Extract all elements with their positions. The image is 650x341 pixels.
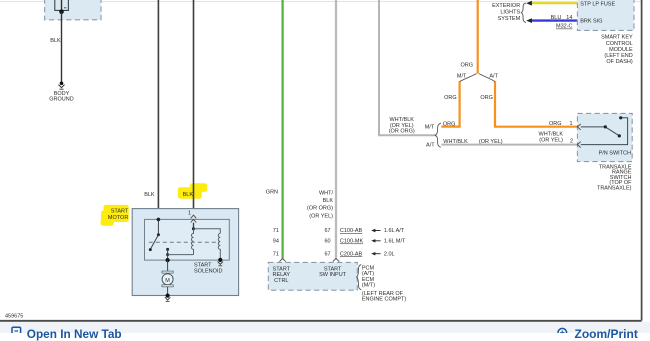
arrowhead yellow wire [526, 1, 532, 6]
svg-text:60: 60 [324, 239, 330, 245]
svg-text:67: 67 [324, 228, 330, 234]
brace wire split M/T A/T [435, 123, 441, 147]
wire BLK to solenoid terminal 1 [193, 0, 195, 219]
P/N switch internal wiring [581, 118, 628, 145]
jumper wire to hold-in coil [194, 229, 221, 234]
switch pivot dot [157, 233, 160, 236]
svg-text:START: START [111, 209, 129, 215]
motor M brush bar bottom [162, 285, 173, 287]
P/N switch blade [605, 127, 619, 136]
start motor assembly box [132, 209, 238, 296]
svg-text:BRK SIG: BRK SIG [580, 18, 602, 24]
link Zoom/Print [575, 327, 638, 341]
hold-in coil ground dot [218, 258, 222, 262]
svg-text:(OR YEL): (OR YEL) [479, 139, 503, 145]
svg-text:ORG: ORG [549, 121, 562, 127]
svg-text:71: 71 [273, 228, 279, 234]
svg-text:SOLENOID: SOLENOID [194, 268, 222, 274]
yellow highlight over BLK label [178, 183, 207, 198]
wire BLK battery cable to start motor [157, 0, 159, 219]
connector chevron at case entry [191, 215, 197, 218]
motor ground junction dot [166, 294, 170, 298]
svg-text:CONTROL: CONTROL [606, 41, 633, 47]
wire from chevron to coil junction [193, 223, 195, 229]
svg-text:SMART KEY: SMART KEY [601, 35, 633, 41]
arrow 1.6L A/T [371, 228, 405, 234]
wire junction to motor [167, 260, 169, 271]
svg-text:SYSTEM: SYSTEM [498, 16, 521, 22]
connector chevron at solenoid entry [191, 219, 197, 222]
junction dot [59, 9, 64, 14]
terminal junction dot on solenoid box [157, 218, 161, 222]
svg-text:OF DASH): OF DASH) [606, 59, 632, 65]
wire node to motor [167, 255, 169, 261]
open contact dot [149, 248, 152, 251]
label START MOTOR [108, 209, 129, 221]
wire ORG M/T branch [441, 81, 459, 126]
wire from terminal to switch pivot [157, 219, 159, 234]
svg-text:94: 94 [273, 239, 279, 245]
label PCM/ECM location [362, 266, 406, 303]
svg-text:71: 71 [273, 251, 279, 257]
smart key control module box (dashed, cut off at top) [577, 0, 634, 30]
wire ORG main feed [477, 0, 479, 74]
svg-text:ORG: ORG [443, 121, 456, 127]
arrowhead blue wire [526, 18, 532, 23]
svg-text:1.6L A/T: 1.6L A/T [384, 228, 405, 234]
svg-text:TRANSAXLE): TRANSAXLE) [597, 185, 632, 191]
svg-text:(M/T): (M/T) [362, 282, 375, 288]
wire ORG A/T branch to P/N switch pin 1 [495, 81, 577, 127]
svg-text:2: 2 [570, 139, 573, 145]
label EXTERIOR LIGHTS SYSTEM [492, 3, 521, 22]
pull-in coil winding [192, 229, 194, 255]
svg-text:67: 67 [324, 251, 330, 257]
svg-text:ORG: ORG [480, 95, 493, 101]
ground terminal dot [60, 82, 64, 86]
svg-text:GRN: GRN [266, 190, 278, 196]
label TRANSAXLE RANGE SWITCH location [597, 164, 632, 191]
svg-text:ORG: ORG [444, 95, 457, 101]
svg-text:1: 1 [569, 121, 572, 127]
svg-text:2.0L: 2.0L [384, 251, 395, 257]
svg-text:SW INPUT: SW INPUT [319, 272, 347, 278]
svg-text:C100-AB: C100-AB [340, 228, 363, 234]
connector row C200-AB pins 71/67 [273, 251, 363, 257]
solenoid switch blade (open) [150, 235, 158, 250]
svg-text:MODULE: MODULE [609, 47, 633, 53]
zoom/print magnifier icon [558, 328, 567, 337]
svg-text:A/T: A/T [426, 142, 435, 148]
connector row C100-AB pins 71/67 [273, 228, 363, 234]
solenoid case ground symbol [218, 262, 223, 266]
motor M brush bar top [162, 271, 173, 273]
svg-text:ENGINE COMPT): ENGINE COMPT) [362, 297, 406, 303]
open in new tab icon [12, 327, 21, 335]
connector chevron pin 1 [577, 124, 580, 130]
P/N switch contact dots [604, 116, 623, 137]
label WHT/BLK (OR ORG) (OR YEL) [307, 191, 333, 220]
motor ground symbol [165, 297, 170, 301]
svg-text:(OR ORG): (OR ORG) [389, 129, 415, 135]
node dot [166, 253, 169, 256]
svg-text:459675: 459675 [5, 314, 23, 320]
wire WHT/BLK A/T branch to P/N switch pin 2 [441, 144, 577, 146]
label START SW INPUT [319, 267, 347, 279]
label START RELAY CTRL [272, 267, 290, 285]
fixed contact dot [166, 248, 169, 251]
label WHT/BLK (OR YEL) (OR ORG) [389, 117, 415, 135]
connector chevron pin 2 [577, 142, 580, 148]
svg-text:BLK: BLK [144, 192, 155, 198]
svg-text:LIGHTS: LIGHTS [500, 10, 520, 16]
toolbar background [0, 322, 650, 333]
svg-text:1.6L M/T: 1.6L M/T [384, 239, 406, 245]
link Open In New Tab [27, 327, 122, 341]
arrow 1.6L M/T [371, 239, 406, 245]
svg-text:BLK: BLK [323, 198, 334, 204]
svg-text:STP LP FUSE: STP LP FUSE [580, 2, 615, 8]
motor M body [162, 274, 173, 285]
svg-text:A/T: A/T [489, 73, 498, 79]
svg-text:P/N SWITCH: P/N SWITCH [599, 151, 631, 157]
PCM/ECM box (dashed) [268, 262, 357, 290]
connector chevron GRN wire into PCM [279, 259, 285, 262]
hold-in coil winding [218, 233, 220, 260]
svg-text:(LEFT END: (LEFT END [604, 53, 632, 59]
svg-text:1: 1 [188, 211, 191, 217]
wire WHT/BLK from ignition switch (vertical + corner) [379, 0, 436, 135]
dashed mechanical linkage [149, 241, 220, 243]
wire motor to case ground [167, 287, 169, 296]
svg-text:M: M [165, 278, 170, 284]
arrow 2.0L [371, 251, 394, 257]
connector row C100-MK pins 94/60 [273, 239, 364, 245]
label START SOLENOID [194, 263, 222, 275]
svg-text:C100-MK: C100-MK [340, 239, 364, 245]
junction dot on solenoid box bottom [166, 258, 170, 262]
svg-text:EXTERIOR: EXTERIOR [492, 3, 520, 9]
svg-text:MOTOR: MOTOR [108, 215, 128, 221]
label BLU 14 [551, 15, 573, 21]
svg-text:(OR YEL): (OR YEL) [309, 213, 333, 219]
svg-text:(OR YEL): (OR YEL) [539, 138, 563, 144]
svg-text:C200-AB: C200-AB [340, 251, 363, 257]
coil junction dot [192, 227, 195, 230]
svg-text:(OR ORG): (OR ORG) [307, 206, 333, 212]
svg-text:BLK: BLK [50, 38, 61, 44]
P/N switch box (dashed) [577, 113, 632, 161]
svg-text:M/T: M/T [425, 125, 435, 131]
label WHT/BLK (OR YEL) at pin 2 [539, 132, 564, 144]
label BODY GROUND [49, 91, 73, 103]
svg-text:WHT/BLK: WHT/BLK [443, 139, 468, 145]
fuse element symbol [55, 0, 69, 12]
wire BLK to body ground [61, 12, 63, 83]
connector chevron WHT/BLK wire into PCM [333, 259, 339, 262]
svg-text:GROUND: GROUND [49, 97, 73, 103]
split symbol wishbone [460, 74, 495, 82]
svg-text:14: 14 [566, 15, 572, 21]
body ground symbol [59, 85, 65, 90]
wire YEL to stop lamp fuse [531, 2, 577, 4]
wire node to pull-in coil [168, 254, 194, 256]
battery junction / fuse box (dashed, cut off at top) [45, 0, 101, 20]
svg-text:M/T: M/T [457, 73, 467, 79]
wire fixed contact to node [167, 249, 169, 254]
brace PCM [357, 265, 362, 290]
label SMART KEY CONTROL MODULE location [601, 35, 633, 65]
svg-text:M32-C: M32-C [556, 24, 573, 30]
wire GRN to PCM start relay ctrl [282, 0, 284, 259]
brace exterior lights [521, 3, 526, 23]
svg-text:ORG: ORG [460, 62, 473, 68]
svg-text:BLU: BLU [551, 15, 562, 21]
start solenoid inner box [145, 219, 230, 260]
svg-text:WHT/: WHT/ [319, 191, 334, 197]
yellow highlight over START MOTOR label [101, 205, 129, 226]
wire BLU brake signal [531, 19, 577, 21]
svg-text:CTRL: CTRL [274, 278, 288, 284]
wire WHT/BLK to PCM start sw input [335, 0, 337, 259]
svg-text:BLK: BLK [183, 192, 194, 198]
